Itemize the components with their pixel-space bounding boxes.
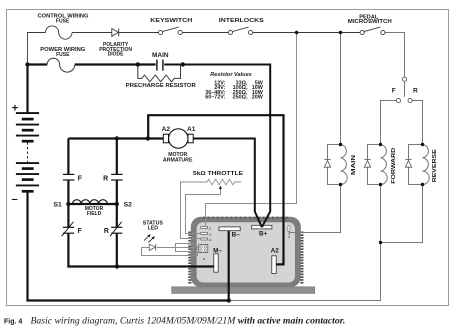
svg-text:DIODE: DIODE bbox=[108, 52, 125, 58]
svg-text:R: R bbox=[103, 176, 108, 183]
svg-text:S1: S1 bbox=[53, 201, 62, 208]
svg-text:MICROSWITCH: MICROSWITCH bbox=[348, 19, 392, 25]
svg-text:F: F bbox=[392, 88, 396, 95]
svg-text:+: + bbox=[12, 103, 18, 115]
svg-text:B+: B+ bbox=[259, 231, 268, 238]
svg-text:S2: S2 bbox=[124, 201, 133, 208]
svg-text:REVERSE: REVERSE bbox=[432, 149, 438, 182]
svg-text:Basic wiring diagram, Curtis 1: Basic wiring diagram, Curtis 1204M/05M/0… bbox=[31, 315, 346, 326]
svg-text:A2: A2 bbox=[271, 248, 280, 255]
svg-text:FORWARD: FORWARD bbox=[391, 148, 397, 184]
svg-text:FIELD: FIELD bbox=[87, 211, 102, 217]
svg-text:LED: LED bbox=[148, 226, 159, 232]
svg-text:ARMATURE: ARMATURE bbox=[163, 157, 193, 163]
svg-text:250Ω,: 250Ω, bbox=[233, 95, 248, 101]
svg-text:R: R bbox=[104, 228, 109, 235]
svg-text:5kΩ THROTTLE: 5kΩ THROTTLE bbox=[193, 171, 243, 177]
svg-text:60–72V:: 60–72V: bbox=[205, 95, 225, 101]
svg-text:R: R bbox=[413, 88, 418, 95]
svg-text:MAIN: MAIN bbox=[152, 53, 169, 59]
svg-text:20W: 20W bbox=[252, 95, 264, 101]
svg-text:M–: M– bbox=[213, 248, 222, 255]
svg-text:PRECHARGE RESISTOR: PRECHARGE RESISTOR bbox=[126, 83, 196, 89]
svg-text:INTERLOCKS: INTERLOCKS bbox=[219, 18, 264, 24]
svg-text:F: F bbox=[77, 228, 82, 235]
svg-text:–: – bbox=[11, 193, 17, 205]
svg-text:Fig. 4: Fig. 4 bbox=[4, 318, 22, 325]
svg-text:B–: B– bbox=[232, 232, 241, 239]
svg-text:MAIN: MAIN bbox=[351, 155, 357, 175]
svg-text:F: F bbox=[78, 176, 83, 183]
svg-text:FUSE: FUSE bbox=[56, 52, 70, 58]
svg-text:Resistor Values: Resistor Values bbox=[210, 72, 252, 78]
svg-text:KEYSWITCH: KEYSWITCH bbox=[150, 18, 192, 24]
svg-text:A1: A1 bbox=[187, 126, 196, 133]
svg-text:FUSE: FUSE bbox=[56, 19, 70, 25]
svg-text:A2: A2 bbox=[162, 126, 171, 133]
